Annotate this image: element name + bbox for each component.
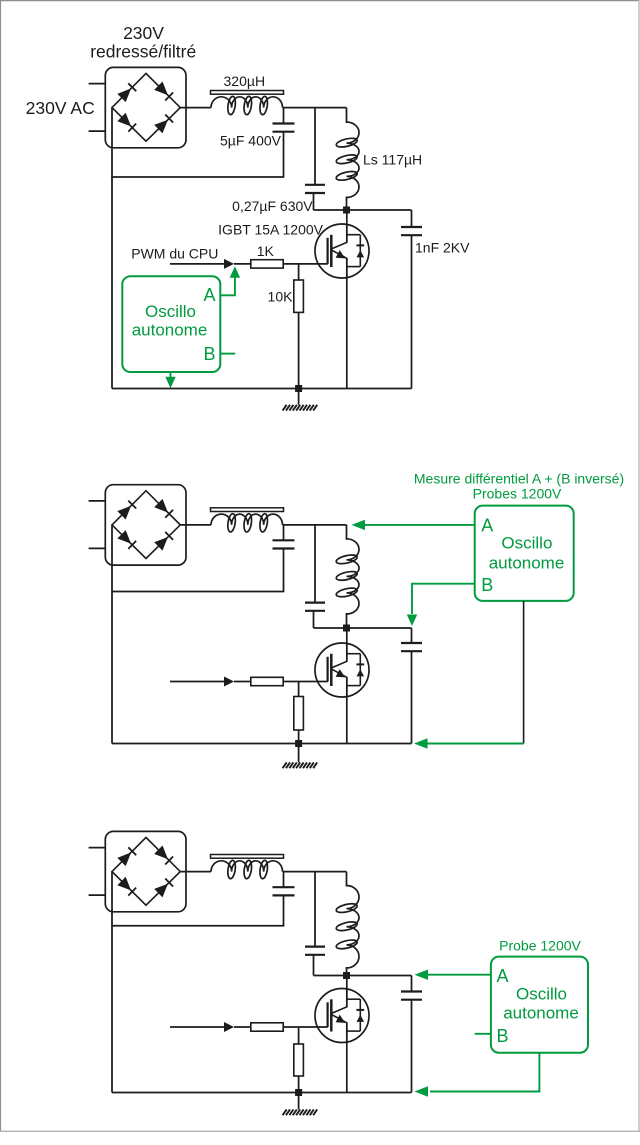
wire bridge output to inductor: [180, 871, 211, 873]
label 0,27uF 630V: [232, 198, 313, 214]
inductor filter: [211, 91, 284, 116]
wire AC input top stub: [89, 500, 106, 502]
label probe B 2: [481, 575, 493, 595]
wire Ls top stub: [346, 525, 348, 540]
wire Ls bottom stub: [346, 197, 348, 211]
wire emitter to bottom rail: [346, 1023, 348, 1093]
svg-text:IGBT 15A 1200V: IGBT 15A 1200V: [218, 221, 323, 237]
label probe A 1: [203, 285, 215, 305]
label 230V redresse/filtre: [90, 23, 196, 62]
wire emitter to bottom rail: [346, 677, 348, 744]
wire 5uF top stub: [283, 525, 285, 540]
wire oscillo ground lead 2: [523, 601, 525, 744]
svg-text:5µF 400V: 5µF 400V: [220, 132, 282, 148]
bridge rectifier: [105, 485, 186, 565]
wire junction rail: [314, 975, 412, 977]
wire probe B 1 stub: [220, 353, 235, 355]
resistor 10K: [294, 697, 304, 731]
wire inductor to Ls corner: [283, 107, 347, 109]
wire ground stub: [298, 1093, 300, 1110]
wire PWM input: [170, 681, 226, 683]
circuit 3 (single probe): [89, 831, 588, 1115]
wire arrow to 1K: [234, 681, 251, 683]
label Probes 1200V: [473, 486, 562, 502]
svg-text:A: A: [481, 516, 493, 536]
wire 1nF top corner: [411, 628, 413, 643]
ground: [283, 405, 318, 411]
label Oscillo autonome 2: [489, 533, 565, 572]
wire probe B 2: [407, 584, 475, 626]
wire 1nF bottom stub: [411, 651, 413, 743]
label 1K: [257, 243, 275, 259]
wire left vertical rail: [111, 108, 113, 389]
resistor 1K: [251, 1023, 283, 1031]
circuit 2 (differential measurement): [89, 470, 625, 768]
wire 0.27uF bottom stub: [313, 611, 315, 628]
wire junction rail: [314, 627, 412, 629]
wire 1nF top corner: [411, 210, 413, 227]
wire arrow to 1K: [234, 263, 251, 265]
svg-text:Oscillo: Oscillo: [501, 533, 552, 552]
wire left vertical rail: [111, 872, 113, 1093]
svg-text:autonome: autonome: [489, 554, 565, 573]
ground: [283, 762, 318, 768]
wire 5uF bottom to left rail: [111, 895, 284, 925]
wire bottom rail: [112, 388, 412, 390]
wire 5uF bottom to left rail: [111, 549, 284, 592]
label 5uF 400V: [220, 132, 282, 148]
svg-text:A: A: [496, 966, 508, 986]
resistor 1K: [251, 260, 283, 268]
wire 1nF bottom stub: [411, 1000, 413, 1093]
capacitor 1nF: [401, 992, 422, 1000]
label 10K: [268, 288, 294, 304]
svg-text:320µH: 320µH: [224, 73, 266, 89]
wire Ls top stub: [346, 872, 348, 887]
svg-text:Oscillo: Oscillo: [516, 985, 567, 1004]
wire PWM input: [170, 1026, 226, 1028]
wire inductor to Ls corner: [283, 524, 347, 526]
label Ls 117uH: [363, 152, 422, 168]
wire AC input bottom stub: [89, 547, 106, 549]
wire 1nF bottom stub: [411, 235, 413, 388]
wire gate divider stub: [298, 682, 300, 697]
wire 5uF bottom to left rail: [111, 132, 284, 177]
wire gate divider stub: [298, 1027, 300, 1044]
label probe B 1: [203, 344, 215, 364]
oscilloscope box 3: [491, 957, 588, 1053]
capacitor 0.27uF: [305, 185, 325, 193]
wire 1K to gate: [283, 681, 328, 683]
wire 0.27uF top stub: [314, 525, 316, 603]
wire probe B 3 stub: [475, 1033, 491, 1035]
circuit 1 (labelled): [26, 23, 470, 411]
wire inductor to Ls corner: [283, 871, 347, 873]
wire 10K to bottom rail: [298, 1076, 300, 1093]
wire bottom rail: [112, 1092, 412, 1094]
svg-text:B: B: [496, 1026, 508, 1046]
node junction Ls drain: [343, 625, 350, 632]
svg-text:Probes 1200V: Probes 1200V: [473, 486, 562, 502]
wire arrow to 1K: [234, 1026, 251, 1028]
oscilloscope box 2: [475, 506, 574, 601]
wire junction rail: [314, 209, 412, 211]
svg-text:B: B: [481, 575, 493, 595]
label probe A 2: [481, 516, 493, 536]
label 230V AC: [26, 98, 95, 118]
svg-text:Ls 117µH: Ls 117µH: [363, 152, 422, 168]
wire 1nF top corner: [411, 976, 413, 992]
capacitor 1nF: [401, 643, 422, 651]
oscilloscope box 1: [122, 276, 220, 372]
wire 0.27uF top stub: [314, 872, 316, 947]
wire bottom rail: [112, 743, 412, 745]
wire bridge output to inductor: [180, 524, 211, 526]
node junction ground: [295, 740, 302, 747]
arrow PWM: [224, 677, 234, 687]
wire Ls bottom stub: [346, 613, 348, 628]
label probe A 3: [496, 966, 508, 986]
wire Ls bottom stub: [346, 967, 348, 976]
svg-text:autonome: autonome: [132, 320, 208, 339]
wire 1K to gate: [283, 1026, 328, 1028]
wire ground stub: [298, 389, 300, 405]
wire 0.27uF bottom stub: [313, 193, 315, 210]
wire ground probe 1: [165, 372, 175, 388]
svg-text:autonome: autonome: [503, 1004, 579, 1023]
resistor 10K: [294, 280, 304, 312]
label Mesure differentiel: [414, 470, 624, 486]
wire probe A 1: [220, 266, 240, 295]
wire 5uF top stub: [283, 108, 285, 124]
wire AC input bottom stub: [89, 130, 106, 132]
wire left vertical rail: [111, 525, 113, 744]
label Probe 1200V: [499, 938, 581, 954]
capacitor 5uF: [273, 124, 295, 132]
wire 0.27uF top stub: [314, 108, 316, 185]
bridge rectifier: [105, 67, 186, 147]
wire 1K to gate: [283, 263, 328, 265]
svg-text:Oscillo: Oscillo: [145, 302, 196, 321]
wire bridge output to inductor: [180, 107, 211, 109]
ground: [283, 1109, 318, 1115]
resistor 10K: [294, 1044, 304, 1076]
capacitor 0.27uF: [305, 603, 325, 611]
wire AC input bottom stub: [89, 894, 106, 896]
wire 10K to bottom rail: [298, 312, 300, 388]
svg-text:1K: 1K: [257, 243, 275, 259]
transistor IGBT: [315, 989, 369, 1043]
node junction Ls drain: [343, 207, 350, 214]
wire probe A 2: [352, 520, 475, 530]
wire probe A 3: [415, 970, 491, 980]
svg-text:230V: 230V: [123, 23, 164, 43]
inductor filter: [211, 508, 284, 533]
capacitor 5uF: [273, 540, 295, 548]
inductor Ls: [335, 539, 359, 614]
wire ground stub: [298, 744, 300, 763]
wire Ls top stub: [346, 108, 348, 123]
svg-text:1nF 2KV: 1nF 2KV: [415, 239, 470, 255]
wire emitter to bottom rail: [346, 258, 348, 389]
svg-text:B: B: [203, 344, 215, 364]
label probe B 3: [496, 1026, 508, 1046]
svg-text:Mesure différentiel A + (B inv: Mesure différentiel A + (B inversé): [414, 470, 624, 486]
wire 5uF top stub: [283, 872, 285, 888]
svg-text:230V AC: 230V AC: [26, 98, 95, 118]
svg-text:PWM du CPU: PWM du CPU: [131, 245, 218, 261]
wire collector stub: [346, 628, 348, 662]
wire AC input top stub: [89, 847, 106, 849]
label 320uH: [224, 73, 266, 89]
wire AC input top stub: [89, 83, 106, 85]
arrow PWM: [224, 259, 234, 269]
wire ground probe 3: [415, 1053, 540, 1097]
wire ground probe 2: [414, 738, 524, 748]
node junction Ls drain: [343, 972, 350, 979]
wire collector stub: [346, 976, 348, 1008]
capacitor 5uF: [273, 887, 295, 895]
wire 10K to bottom rail: [298, 730, 300, 744]
svg-text:0,27µF 630V: 0,27µF 630V: [232, 198, 313, 214]
resistor 1K: [251, 677, 283, 685]
wire PWM input: [170, 263, 226, 265]
svg-text:10K: 10K: [268, 288, 294, 304]
wire 0.27uF bottom stub: [313, 955, 315, 976]
capacitor 1nF: [401, 227, 422, 235]
inductor Ls: [335, 886, 359, 969]
transistor IGBT: [315, 643, 369, 697]
inductor Ls: [335, 122, 359, 198]
svg-text:A: A: [203, 285, 215, 305]
arrow PWM: [224, 1022, 234, 1032]
wire collector stub: [346, 210, 348, 243]
svg-text:Probe 1200V: Probe 1200V: [499, 938, 581, 954]
bridge rectifier: [105, 831, 186, 911]
node junction ground: [295, 1089, 302, 1096]
capacitor 0.27uF: [305, 947, 325, 955]
label IGBT 15A 1200V: [218, 221, 323, 237]
transistor IGBT: [315, 224, 369, 278]
wire gate divider stub: [298, 264, 300, 280]
label Oscillo autonome 1: [132, 302, 208, 339]
label PWM du CPU: [131, 245, 218, 261]
svg-text:redressé/filtré: redressé/filtré: [90, 42, 196, 62]
node junction ground: [295, 385, 302, 392]
label 1nF 2KV: [415, 239, 470, 255]
label Oscillo autonome 3: [503, 985, 579, 1023]
inductor filter: [211, 855, 284, 880]
